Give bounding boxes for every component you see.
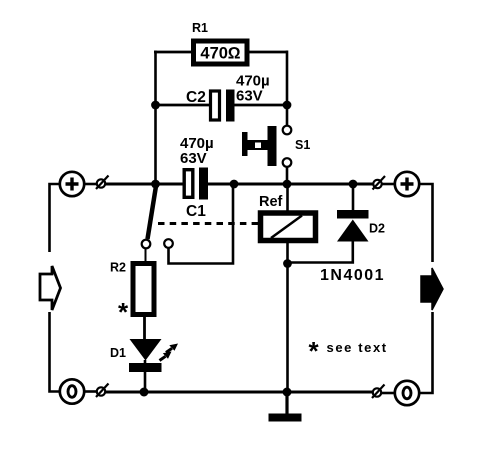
svg-text:D2: D2	[369, 222, 385, 236]
node main rail junction D2 top (x353)	[349, 180, 358, 189]
wire top rail left segment	[106, 183, 185, 186]
wire D2 bottom to junction	[288, 240, 353, 263]
label see text note	[309, 336, 388, 366]
node main rail junction relay top (x287)	[283, 180, 292, 189]
wire terminal0 to plug (output)	[382, 392, 396, 395]
svg-text:R1: R1	[192, 21, 208, 35]
diode D2	[337, 210, 369, 242]
wire R1 right	[248, 51, 288, 54]
wire left bracket bottom (input 0 side)	[50, 312, 60, 392]
LED D1 light arrows	[160, 344, 179, 361]
LED D1	[129, 339, 162, 392]
svg-text:D1: D1	[110, 346, 126, 360]
plug connector (input 0)	[96, 384, 109, 398]
terminal + (input)	[60, 172, 84, 196]
svg-text:see text: see text	[327, 340, 388, 355]
capacitor C1	[184, 168, 208, 200]
node C2 right junction	[283, 101, 292, 110]
node D1 bottom junction	[140, 388, 149, 397]
capacitor C2	[211, 90, 235, 122]
wire top rail right segment	[208, 183, 373, 186]
wire R1 branch left vertical	[154, 51, 157, 186]
wire R2 to D1	[143, 316, 146, 341]
wire throw contact to rail (down right up)	[169, 185, 234, 264]
input arrow (outline)	[40, 266, 61, 310]
terminal 0 (output)	[395, 381, 419, 405]
svg-text:C2: C2	[186, 89, 206, 106]
ground	[269, 392, 302, 422]
resistor R2	[133, 264, 154, 315]
relay coil Ref	[261, 213, 316, 241]
svg-text:Ref: Ref	[259, 194, 283, 210]
node C2 left junction	[151, 101, 160, 110]
wire R1 branch right vertical	[286, 51, 289, 126]
node ground junction	[283, 388, 292, 397]
svg-text:1N4001: 1N4001	[320, 267, 385, 284]
wire plug to terminal + (output)	[382, 183, 395, 186]
terminal 0 (input)	[60, 379, 84, 403]
wire D2 top	[352, 184, 355, 211]
plug connector (input +)	[96, 176, 109, 190]
svg-text:*: *	[118, 297, 129, 327]
svg-text:R2: R2	[110, 261, 126, 275]
resistor R1	[194, 41, 248, 64]
node main rail junction left (x155)	[151, 180, 160, 189]
output arrow (filled)	[421, 268, 443, 310]
dashed link switch to relay	[158, 222, 258, 225]
relay contact throw circle	[164, 239, 173, 248]
plug connector (output 0)	[372, 385, 385, 399]
node main rail junction C1 right (x234)	[230, 180, 239, 189]
svg-text:63V: 63V	[180, 150, 207, 167]
terminal + (output)	[395, 172, 419, 196]
wire terminal+ to plug	[84, 183, 97, 186]
wire pole to R2	[145, 249, 147, 263]
relay contact arm (switch)	[148, 186, 157, 239]
plug connector (output +)	[373, 176, 386, 190]
relay contact pole circle	[142, 240, 151, 249]
node relay/diode bottom junction	[283, 259, 292, 268]
wire R1 left	[154, 51, 192, 54]
wire C2 right	[235, 104, 288, 107]
svg-text:*: *	[309, 336, 320, 366]
wire right bracket bottom	[419, 312, 433, 393]
svg-text:470Ω: 470Ω	[200, 45, 241, 63]
switch S1 pushbutton	[242, 126, 291, 167]
svg-text:C1: C1	[186, 203, 206, 220]
wire bottom rail	[106, 391, 373, 394]
wire relay bottom	[286, 241, 289, 392]
wire terminal0 to plug	[84, 390, 97, 393]
wire left bracket top (input + side)	[50, 184, 62, 252]
wire C2 left	[156, 104, 211, 107]
svg-text:63V: 63V	[236, 88, 263, 105]
svg-text:S1: S1	[295, 138, 310, 152]
wire relay top	[286, 184, 289, 212]
wire right bracket top	[419, 184, 433, 262]
wire S1 bottom to rail	[286, 167, 289, 186]
